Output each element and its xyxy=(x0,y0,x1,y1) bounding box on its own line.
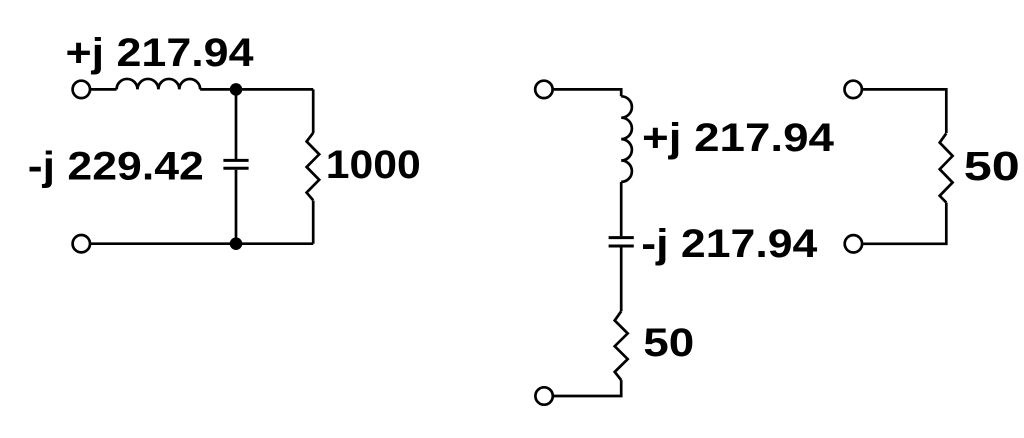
terminal P2+ (middle circuit, top open circle) xyxy=(535,81,552,98)
terminal P1+ (left circuit, top-left open circle) xyxy=(73,81,90,98)
svg-text:50: 50 xyxy=(964,143,1020,189)
terminal P3- (right circuit, bottom open circle) xyxy=(845,235,862,252)
resistor R3 (50, vertical zigzag) xyxy=(940,133,953,202)
svg-text:-j 217.94: -j 217.94 xyxy=(641,222,818,266)
wire xyxy=(312,89,315,133)
wire xyxy=(200,88,313,91)
wire xyxy=(235,89,238,159)
wire xyxy=(620,248,623,312)
svg-text:1000: 1000 xyxy=(326,143,421,187)
inductor L1 (+j 217.94, horizontal 4-hump coil) xyxy=(117,79,201,89)
node B (junction dot bottom) xyxy=(230,237,243,250)
svg-text:+j 217.94: +j 217.94 xyxy=(642,116,835,160)
wire xyxy=(862,89,946,133)
terminal P2- (middle circuit, bottom open circle) xyxy=(535,387,552,404)
wire xyxy=(620,182,623,236)
wire xyxy=(312,201,315,244)
terminal P3+ (right circuit, top open circle) xyxy=(845,81,862,98)
wire xyxy=(90,242,313,245)
wire xyxy=(90,88,117,91)
wire xyxy=(235,170,238,244)
resistor R1 (1000, vertical zigzag) xyxy=(307,133,320,200)
inductor L2 (+j 217.94, vertical 4-hump coil) xyxy=(621,96,632,182)
capacitor C2 (-j 217.94 plates) xyxy=(609,238,634,246)
capacitor C1 (-j 229.42 plates) xyxy=(223,160,248,168)
svg-text:+j 217.94: +j 217.94 xyxy=(66,31,255,75)
wire xyxy=(553,89,622,96)
wire xyxy=(862,203,946,244)
svg-text:50: 50 xyxy=(643,321,694,365)
terminal P1- (left circuit, bottom-left open circle) xyxy=(73,235,90,252)
resistor R2 (50, vertical zigzag) xyxy=(615,311,628,380)
svg-text:-j 229.42: -j 229.42 xyxy=(28,144,204,188)
wire xyxy=(553,380,621,396)
node A (junction dot top) xyxy=(230,83,243,96)
